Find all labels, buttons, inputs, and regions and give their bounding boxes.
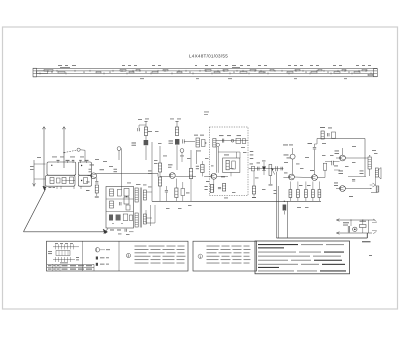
tuner coils L1-L4 — [51, 165, 52, 166]
IF transformer IFT2 — [196, 138, 200, 147]
legend voltage table — [47, 263, 94, 265]
oscillator padder components — [110, 189, 114, 196]
speaker return parts — [376, 186, 379, 192]
band switch S1 — [64, 150, 77, 152]
IF transformer IFT1 — [135, 188, 138, 202]
T4 collector column — [290, 154, 295, 159]
svg-text:1: 1 — [199, 255, 201, 259]
AF coupling cap — [280, 167, 282, 171]
IF module input row — [213, 139, 216, 148]
ground bus wire — [24, 231, 108, 233]
svg-text:3: 3 — [127, 254, 129, 258]
IF module filter box — [223, 158, 240, 172]
T2 bias divider — [159, 146, 161, 163]
transistor T6 — [340, 155, 346, 161]
circled note 3 — [126, 253, 130, 257]
battery feed wire — [277, 237, 368, 239]
transistor T2 — [169, 173, 175, 179]
transistor T5 — [312, 175, 318, 181]
T2 emitter network — [165, 190, 168, 192]
detector load parts — [253, 171, 255, 186]
IF rail droppers — [190, 150, 192, 169]
T1 output wire — [96, 173, 158, 175]
gang line — [33, 160, 35, 186]
shielded IF module (dashed) — [209, 127, 248, 196]
output bias labels — [335, 150, 340, 153]
interstage labels — [114, 168, 118, 171]
output transformer — [368, 157, 371, 169]
component value labels — [52, 156, 57, 159]
driver emitter resistors — [289, 190, 292, 198]
service notes text — [258, 244, 298, 245]
IF module rails — [216, 147, 218, 173]
tuner ground stubs — [56, 186, 58, 189]
legend symbols — [95, 248, 99, 252]
oscillator coil box — [106, 187, 134, 229]
transistor T1 — [91, 173, 97, 179]
legend text block 3 — [135, 245, 147, 248]
service notes box — [255, 241, 350, 274]
mixer bottom parts — [104, 229, 109, 234]
T3 input resistor — [201, 165, 204, 173]
return wire — [286, 201, 288, 238]
stray mark — [369, 254, 372, 257]
output arrow — [373, 183, 376, 187]
svg-text:L4X48T/01/03/55: L4X48T/01/03/55 — [189, 54, 228, 59]
feedback wire — [317, 138, 365, 140]
driver bias cluster — [321, 131, 324, 139]
dial cord pulleys — [39, 72, 41, 74]
IF module top label — [204, 111, 209, 114]
T3 emitter network — [210, 185, 213, 193]
legend box B — [193, 241, 257, 271]
T5 collector column — [313, 147, 316, 149]
junction ring J2 — [180, 149, 184, 153]
dial cord run — [33, 67, 377, 69]
emitter ground bus — [152, 200, 321, 202]
driver coupling parts — [324, 171, 326, 178]
battery subcircuit — [337, 219, 375, 221]
module pin labels — [250, 150, 254, 153]
circled note 1 — [198, 254, 202, 258]
battery label — [362, 241, 371, 242]
volume control — [269, 165, 272, 176]
antenna rod wires — [43, 127, 45, 187]
chassis diagonal wire — [24, 189, 46, 232]
ferrite tuner shield cans — [47, 162, 76, 175]
band position labels — [58, 64, 62, 67]
emitter return wires — [151, 142, 153, 201]
oscillator supply cluster — [145, 121, 147, 127]
legend box A — [47, 241, 189, 271]
legend text block 1 — [207, 245, 220, 248]
IF supply cluster — [176, 121, 178, 127]
transistor T7 — [340, 186, 346, 192]
loudspeaker — [375, 168, 378, 177]
detector diode network — [249, 168, 284, 170]
T1 emitter network — [96, 178, 98, 182]
transistor T4 — [289, 174, 295, 180]
transistor T3 — [211, 173, 217, 179]
legend mini-schematic — [55, 242, 58, 245]
volume/AGC down wires — [276, 172, 278, 238]
bus dropper — [283, 205, 287, 211]
junction ring J1 — [117, 147, 121, 151]
